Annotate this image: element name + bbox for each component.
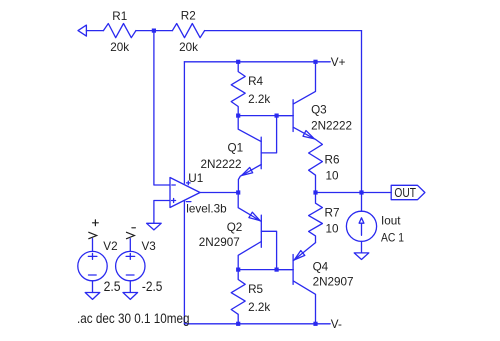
svg-text:2.2k: 2.2k <box>248 301 270 314</box>
Q3 emitter <box>293 127 315 139</box>
Q3 base lead <box>277 115 294 117</box>
wire inverting input column <box>154 31 170 185</box>
Q4 collector <box>293 281 315 324</box>
net label + (V2) <box>93 220 99 226</box>
svg-text:Iout: Iout <box>381 214 401 227</box>
U1 V- power pin <box>183 200 185 323</box>
port flag OUT <box>391 185 425 199</box>
Iout arrow <box>359 218 364 236</box>
Q1 collector <box>238 116 261 142</box>
transistor Q1 bar <box>260 137 262 169</box>
transistor Q3 bar <box>292 100 294 132</box>
wire V+ rail <box>184 61 330 63</box>
U1 V+ power mark <box>187 181 191 185</box>
wire port to R1 <box>86 30 103 32</box>
svg-text:R7: R7 <box>325 206 340 219</box>
svg-text:2N2907: 2N2907 <box>199 236 240 249</box>
U1 V+ power pin <box>183 62 185 184</box>
wire upper base rail <box>238 115 293 117</box>
svg-text:U1: U1 <box>188 172 203 185</box>
V2 bottom lead <box>92 281 94 293</box>
Q1 emitter arrow <box>242 167 253 175</box>
junction lower rail / Q2 collector <box>236 268 240 272</box>
junction lower rail / Q2 base column <box>275 268 279 272</box>
current source Iout <box>346 211 376 241</box>
V3 minus mark <box>126 274 134 276</box>
svg-text:level.3b: level.3b <box>186 203 227 216</box>
resistor R1 <box>103 24 135 38</box>
Q3 emitter arrow <box>303 131 314 139</box>
svg-text:2N2222: 2N2222 <box>201 158 242 171</box>
Iout top lead <box>361 193 363 212</box>
svg-text:V3: V3 <box>142 240 156 253</box>
svg-text:Q2: Q2 <box>227 221 243 234</box>
V2 plus mark <box>88 253 97 259</box>
U1 V- power mark <box>186 201 191 203</box>
Q2 collector <box>238 242 261 270</box>
Q4 base lead <box>277 269 294 271</box>
svg-text:R5: R5 <box>248 283 263 296</box>
junction output / Q1-Q2 emitters <box>236 190 240 194</box>
svg-text:Q3: Q3 <box>311 103 327 116</box>
wire lower base rail <box>238 269 293 271</box>
svg-text:R2: R2 <box>181 10 196 23</box>
junction V+ rail / Q3 collector <box>313 60 317 64</box>
transistor Q2 bar <box>260 215 262 247</box>
svg-text:Q1: Q1 <box>228 142 244 155</box>
transistor Q4 bar <box>292 255 294 285</box>
svg-text:20k: 20k <box>179 41 198 54</box>
voltage source V3 <box>116 251 145 280</box>
svg-text:R6: R6 <box>325 153 340 166</box>
svg-text:2N2222: 2N2222 <box>311 120 352 133</box>
svg-text:2N2907: 2N2907 <box>313 275 354 288</box>
ground at V2 <box>85 293 100 300</box>
svg-text:2.2k: 2.2k <box>248 93 270 106</box>
Q1 base lead <box>261 116 276 153</box>
junction V- rail / R5 <box>236 322 240 326</box>
junction output rail / R6-R7 <box>313 190 317 194</box>
resistor R6 <box>309 139 323 192</box>
U1 minus input mark <box>172 184 176 186</box>
junction base rail / Q1 base column <box>275 114 279 118</box>
Q4 emitter <box>293 243 315 261</box>
junction V+ rail / R4 <box>236 60 240 64</box>
svg-text:10: 10 <box>326 223 340 236</box>
wire R1 to R2 <box>136 30 173 32</box>
svg-text:AC 1: AC 1 <box>381 232 404 245</box>
Q1 emitter <box>238 165 261 193</box>
V3 plus mark <box>126 253 135 259</box>
svg-text:V2: V2 <box>103 240 117 253</box>
svg-text:OUT: OUT <box>394 186 416 200</box>
ground at U1 + input <box>147 223 162 230</box>
Iout bottom lead <box>361 241 363 253</box>
net label - (V3) <box>132 227 136 229</box>
resistor R7 <box>309 193 323 243</box>
Q2 base lead <box>261 231 276 269</box>
svg-text:R1: R1 <box>112 10 127 23</box>
wire V- rail <box>184 323 330 325</box>
junction V- rail / Q4 collector <box>313 322 317 326</box>
Q2 emitter <box>238 193 261 222</box>
svg-text:R4: R4 <box>248 75 263 88</box>
V3 bottom lead <box>129 281 131 293</box>
input port arrow (left) <box>78 25 86 36</box>
svg-text:V-: V- <box>331 318 342 331</box>
Q2 emitter arrow <box>249 212 260 220</box>
ground at Iout <box>354 253 369 260</box>
svg-text:2.5: 2.5 <box>104 278 121 294</box>
wire R2 to feedback column <box>205 30 362 32</box>
resistor R4 <box>231 62 245 116</box>
ground at V3 <box>123 293 138 300</box>
junction at R1/R2 node <box>152 29 156 33</box>
svg-text:20k: 20k <box>110 41 129 54</box>
wire noninverting input <box>154 201 170 223</box>
wire U1 output <box>200 192 238 194</box>
svg-text:-2.5: -2.5 <box>142 278 163 294</box>
V2 top lead <box>92 239 94 252</box>
resistor R5 <box>231 270 245 324</box>
voltage source V2 <box>78 251 107 280</box>
junction base rail / R4 bottom <box>236 114 240 118</box>
V3 top lead <box>129 239 131 252</box>
wire feedback column down to output node <box>361 31 363 193</box>
svg-text:Q4: Q4 <box>313 260 329 273</box>
junction output rail / feedback+Iout <box>359 190 363 194</box>
svg-text:V+: V+ <box>331 56 346 69</box>
net flag chevron - (V3) <box>127 232 135 238</box>
Q4 emitter arrow <box>294 251 305 260</box>
svg-text:10: 10 <box>326 169 340 182</box>
resistor R2 <box>172 24 204 38</box>
op-amp U1 <box>170 178 200 208</box>
Q3 collector <box>293 62 315 104</box>
wire output rail right <box>316 192 392 194</box>
svg-text:.ac dec 30 0.1 10meg: .ac dec 30 0.1 10meg <box>77 310 190 326</box>
U1 plus input mark <box>172 199 176 203</box>
V2 minus mark <box>89 274 97 276</box>
net flag chevron + (V2) <box>89 232 97 238</box>
